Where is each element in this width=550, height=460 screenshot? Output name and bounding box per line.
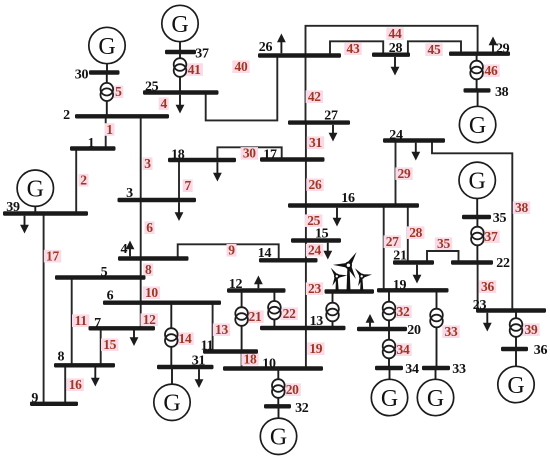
bus 31	[157, 365, 214, 369]
generator at bus 37	[162, 5, 198, 52]
label background line 33	[442, 325, 459, 338]
svg-text:17: 17	[263, 147, 277, 162]
label background line 43	[344, 42, 361, 55]
svg-text:22: 22	[496, 256, 510, 271]
svg-text:26: 26	[309, 177, 322, 192]
svg-text:30: 30	[75, 67, 89, 82]
label background line 46	[482, 64, 499, 77]
svg-text:45: 45	[428, 42, 441, 57]
bus 17	[260, 157, 325, 161]
load arrow at bus 39	[20, 216, 29, 234]
label background line 9	[227, 244, 237, 257]
svg-text:20: 20	[286, 382, 299, 397]
bus 10	[223, 366, 323, 370]
transformer line 14 (6-31)	[165, 303, 178, 367]
svg-text:8: 8	[57, 350, 64, 365]
transformer line 22 (12-13)	[268, 291, 281, 329]
svg-text:36: 36	[481, 279, 494, 294]
svg-text:8: 8	[145, 262, 152, 277]
svg-text:12: 12	[143, 312, 156, 327]
bus 4	[118, 256, 189, 260]
svg-text:28: 28	[409, 225, 422, 240]
wire line 31 (27-17)	[305, 123, 307, 160]
bus 8	[54, 363, 115, 367]
generator at bus 39	[17, 170, 53, 214]
load arrow at bus 27	[329, 125, 338, 142]
bus 5	[55, 275, 146, 279]
label background line 14	[176, 332, 193, 345]
wire line 40 (25-26)	[206, 56, 278, 121]
svg-text:G: G	[270, 425, 287, 451]
wire line 19 (13-10)	[305, 328, 307, 369]
svg-text:7: 7	[94, 316, 101, 331]
injection arrow at bus 20	[366, 314, 375, 327]
load arrow at bus 18	[213, 162, 222, 181]
bus 33	[422, 366, 450, 370]
load arrow at bus 21	[413, 265, 422, 284]
wind farm bus	[325, 289, 375, 293]
wire line 25 (16-15)	[305, 206, 307, 241]
load arrow at bus 15	[323, 243, 332, 260]
bus 15	[291, 238, 341, 242]
label background line 17	[44, 250, 61, 263]
bus 2	[75, 114, 169, 118]
wire line 15 (7-8)	[100, 328, 102, 365]
label background line 12	[141, 313, 158, 326]
label background line 4	[159, 97, 169, 110]
label background line 22	[280, 307, 297, 320]
svg-text:1: 1	[106, 122, 113, 137]
transformer line 37 (35-22)	[471, 217, 484, 263]
label background line 26	[306, 178, 323, 191]
wire line 8 (4-5)	[140, 259, 142, 278]
svg-text:16: 16	[69, 377, 82, 392]
label background line 11	[72, 314, 89, 327]
bus 9	[30, 402, 78, 406]
svg-text:38: 38	[515, 200, 528, 215]
svg-text:5: 5	[115, 84, 122, 99]
wire line 43 (26-28)	[330, 41, 383, 55]
label background line 37	[482, 230, 499, 243]
bus 38	[464, 88, 491, 92]
transformer line 20 (10-32)	[272, 369, 285, 407]
bus 3	[118, 198, 197, 202]
label background line 27	[384, 235, 401, 248]
wire line 23 (14-13)	[305, 260, 307, 328]
wire line 2 (1-39)	[75, 149, 77, 214]
bus 11	[203, 349, 258, 353]
wire line 12 (6-7)	[140, 303, 142, 329]
label background line 41	[186, 63, 203, 76]
label background line 15	[101, 338, 118, 351]
transformer line 41 (37-25)	[174, 52, 187, 93]
load arrow at bus 3	[175, 202, 184, 221]
svg-text:46: 46	[485, 63, 498, 78]
transformer line 34 (20-34)	[383, 329, 396, 368]
wire line 42 (26-27)	[305, 56, 307, 123]
svg-text:29: 29	[496, 41, 510, 56]
svg-text:32: 32	[397, 304, 410, 319]
svg-text:32: 32	[295, 401, 309, 416]
svg-text:27: 27	[386, 234, 399, 249]
svg-text:G: G	[27, 177, 44, 203]
svg-text:G: G	[381, 386, 398, 412]
wire line 28 (16-21)	[407, 206, 409, 263]
svg-text:9: 9	[31, 391, 38, 406]
transformer line 32 (19-20)	[383, 290, 396, 329]
bus 24	[383, 138, 445, 142]
svg-text:42: 42	[308, 89, 321, 104]
svg-text:24: 24	[389, 128, 403, 143]
bus 39	[3, 211, 88, 215]
transformer line 33 (19-33)	[430, 290, 443, 368]
label background line 25	[305, 214, 322, 227]
label background line 20	[284, 383, 301, 396]
bus 6	[103, 301, 221, 305]
svg-text:34: 34	[397, 342, 410, 357]
svg-text:18: 18	[244, 352, 257, 367]
bus 21	[393, 260, 434, 264]
label background line 31	[307, 136, 324, 149]
wire line 26 (17-16)	[305, 160, 307, 206]
svg-text:18: 18	[171, 148, 185, 163]
wire line 9 (4-14)	[178, 244, 279, 260]
svg-text:21: 21	[393, 249, 407, 264]
load arrow at bus 25	[176, 95, 185, 114]
svg-text:38: 38	[495, 85, 509, 100]
label background line 36	[479, 280, 496, 293]
label background line 42	[306, 90, 323, 103]
injection arrow at bus 26	[277, 34, 286, 54]
bus 12	[227, 288, 286, 292]
svg-text:28: 28	[389, 41, 403, 56]
svg-text:23: 23	[308, 281, 321, 296]
svg-text:11: 11	[201, 339, 214, 354]
svg-text:10: 10	[262, 357, 276, 372]
label background line 38	[513, 201, 530, 214]
bus 36	[501, 347, 528, 351]
label background line 10	[143, 286, 160, 299]
injection arrow at bus 4	[126, 241, 135, 257]
label background line 19	[307, 342, 324, 355]
wire line 18 (11-10)	[241, 352, 243, 369]
svg-text:25: 25	[307, 213, 320, 228]
label background line 21	[246, 310, 263, 323]
svg-text:G: G	[469, 113, 486, 139]
bus 28	[372, 53, 410, 57]
generator at bus 33	[417, 368, 453, 416]
transformer line 21 (12-11)	[235, 291, 248, 352]
wire line 45 (28-29)	[408, 41, 461, 54]
wire line 10 (5-6)	[140, 278, 142, 303]
svg-text:26: 26	[259, 40, 273, 55]
svg-text:2: 2	[80, 173, 87, 188]
wire line 24 (15-14)	[305, 241, 307, 261]
label background line 32	[394, 305, 411, 318]
bus 19	[377, 288, 449, 292]
svg-text:30: 30	[243, 146, 256, 161]
svg-text:1: 1	[88, 136, 95, 151]
svg-text:4: 4	[160, 96, 167, 111]
svg-text:21: 21	[249, 309, 262, 324]
label background line 5	[113, 86, 123, 99]
svg-text:24: 24	[308, 243, 321, 258]
wire line 17 (9-39)	[43, 214, 45, 404]
svg-text:11: 11	[75, 313, 88, 328]
svg-text:G: G	[469, 169, 486, 195]
svg-text:36: 36	[534, 343, 548, 358]
svg-text:19: 19	[309, 341, 322, 356]
svg-text:9: 9	[228, 243, 235, 258]
svg-text:29: 29	[398, 166, 411, 181]
wire line 11 (5-8)	[71, 278, 73, 366]
label background line 29	[395, 167, 412, 180]
bus 7	[89, 326, 156, 330]
svg-text:43: 43	[347, 41, 360, 56]
transformer line 5 (30-2)	[101, 73, 114, 117]
label background line 34	[394, 343, 411, 356]
transformer line 46 (29-38)	[470, 54, 483, 91]
label background line 2	[79, 174, 89, 187]
svg-text:14: 14	[258, 246, 272, 261]
svg-text:23: 23	[473, 298, 487, 313]
svg-text:37: 37	[195, 46, 209, 61]
wire line 30 (18-17)	[217, 147, 281, 160]
wire line 3 (2-3)	[140, 116, 142, 200]
load arrow at bus 24	[411, 143, 420, 161]
wire line 16 (8-9)	[64, 365, 66, 404]
transformer wind farm step-up	[326, 292, 339, 329]
bus 37	[165, 50, 196, 54]
label background line 44	[386, 27, 403, 40]
svg-text:4: 4	[121, 242, 128, 257]
svg-text:39: 39	[525, 322, 538, 337]
svg-text:13: 13	[310, 314, 324, 329]
bus 27	[288, 120, 350, 124]
load arrow at bus 28	[391, 57, 400, 76]
generator at bus 30	[89, 27, 125, 72]
label background line 23	[306, 282, 323, 295]
bus 22	[451, 260, 493, 264]
wire line 29 (24-16)	[395, 141, 397, 206]
svg-text:12: 12	[229, 277, 243, 292]
label background line 8	[143, 263, 153, 276]
svg-text:22: 22	[283, 306, 296, 321]
generator at bus 31	[154, 367, 190, 420]
bus 30	[89, 70, 120, 74]
bus 20	[357, 327, 407, 331]
svg-text:6: 6	[146, 220, 153, 235]
label background line 24	[306, 244, 323, 257]
wire line 1 (2-1)	[105, 116, 107, 148]
wire line 44 (26-29)	[306, 26, 478, 56]
label background line 28	[407, 226, 424, 239]
label background line 18	[241, 353, 258, 366]
load arrow at bus 23	[483, 313, 492, 332]
wire line 27 (16-19)	[383, 206, 385, 291]
label background line 40	[232, 60, 249, 73]
svg-text:14: 14	[179, 331, 192, 346]
injection arrow at bus 12	[254, 276, 263, 289]
svg-text:31: 31	[192, 354, 206, 369]
bus 25	[143, 90, 219, 94]
svg-text:41: 41	[188, 62, 201, 77]
load arrow at bus 16	[333, 208, 342, 227]
svg-text:G: G	[427, 386, 444, 412]
svg-text:7: 7	[184, 178, 191, 193]
label background line 39	[522, 323, 539, 336]
bus 14	[259, 258, 318, 262]
svg-text:G: G	[163, 391, 180, 417]
svg-text:6: 6	[107, 289, 114, 304]
svg-text:3: 3	[126, 186, 133, 201]
svg-text:G: G	[98, 34, 115, 60]
label background line 7	[183, 179, 193, 192]
svg-text:G: G	[171, 12, 188, 38]
generator at bus 34	[371, 368, 407, 416]
label background line 45	[425, 43, 442, 56]
bus 16	[288, 203, 419, 207]
label background line 13	[213, 323, 230, 336]
label background line 16	[67, 378, 84, 391]
bus 23	[476, 308, 546, 312]
bus 34	[375, 366, 403, 370]
svg-text:5: 5	[101, 265, 108, 280]
load arrow at bus 31	[195, 369, 204, 388]
svg-text:33: 33	[452, 362, 466, 377]
wind farm turbines	[331, 252, 372, 291]
label background line 1	[105, 123, 115, 136]
bus 26	[258, 53, 341, 57]
bus 32	[264, 404, 291, 408]
svg-text:31: 31	[309, 135, 322, 150]
bus 35	[462, 215, 491, 219]
svg-text:25: 25	[145, 80, 159, 95]
svg-text:13: 13	[215, 322, 228, 337]
load arrow at bus 7	[130, 331, 139, 347]
wire line 7 (18-3)	[178, 160, 180, 200]
svg-text:27: 27	[324, 109, 338, 124]
injection arrow at bus 29	[489, 37, 498, 52]
svg-text:44: 44	[389, 26, 402, 41]
wire line 6 (3-4)	[140, 200, 142, 259]
svg-text:35: 35	[493, 211, 507, 226]
generator at bus 38	[459, 90, 495, 142]
svg-text:16: 16	[341, 191, 355, 206]
wire line 38 (24-23)	[432, 141, 512, 311]
svg-text:37: 37	[485, 229, 498, 244]
bus 1	[70, 146, 116, 150]
transformer line 39 (23-36)	[510, 311, 523, 350]
svg-text:40: 40	[235, 59, 248, 74]
generator at bus 35	[459, 162, 495, 217]
bus 18	[168, 158, 236, 162]
svg-text:10: 10	[145, 285, 158, 300]
svg-text:15: 15	[315, 227, 329, 242]
wire line 36 (22-23)	[477, 263, 479, 311]
svg-text:20: 20	[407, 323, 421, 338]
label background line 30	[241, 147, 258, 160]
svg-text:3: 3	[144, 156, 151, 171]
wire line 35 (21-22)	[427, 251, 459, 263]
generator at bus 36	[498, 349, 534, 403]
svg-text:39: 39	[6, 200, 20, 215]
svg-text:33: 33	[445, 324, 458, 339]
wire line 13 (6-11)	[212, 303, 214, 352]
svg-text:15: 15	[103, 337, 116, 352]
label background line 3	[143, 157, 153, 170]
svg-text:19: 19	[393, 278, 407, 293]
svg-text:34: 34	[405, 362, 419, 377]
svg-text:2: 2	[63, 108, 70, 123]
bus 29	[449, 52, 510, 56]
label background line 6	[145, 221, 155, 234]
bus 13	[260, 326, 346, 330]
load arrow at bus 8	[91, 368, 100, 387]
svg-text:G: G	[507, 373, 524, 399]
svg-text:35: 35	[437, 236, 450, 251]
generator at bus 32	[260, 406, 296, 454]
label background line 35	[435, 237, 452, 250]
svg-text:17: 17	[46, 249, 59, 264]
